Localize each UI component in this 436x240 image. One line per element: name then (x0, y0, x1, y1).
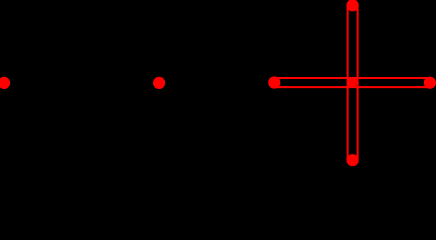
pad P5 (crosshair top end flash) (347, 0, 359, 11)
pad P2 (middle flash) (153, 77, 165, 89)
pad P1 (left edge flash) (0, 77, 10, 89)
node center (crosshair center flash) (347, 77, 358, 88)
pad P6 (crosshair bottom end flash) (347, 154, 359, 166)
wire (crosshair horizontal outline bottom rail) (274, 86, 430, 88)
wire (crosshair vertical outline right rail) (357, 5, 359, 160)
wire (crosshair vertical outline left rail) (347, 5, 349, 160)
pad P4 (crosshair right end flash) (424, 77, 436, 89)
wire (crosshair horizontal outline top rail) (274, 77, 430, 79)
pad P3 (crosshair left end flash) (268, 76, 280, 88)
